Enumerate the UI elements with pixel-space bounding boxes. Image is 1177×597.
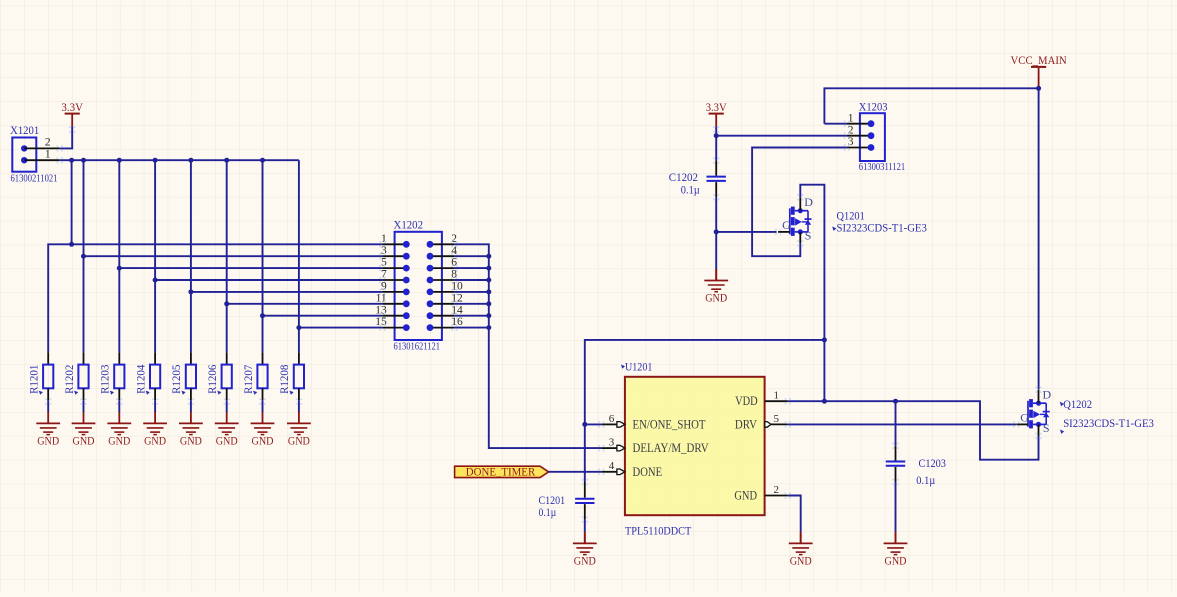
junction [486, 313, 491, 318]
label Q1202 [1060, 397, 1092, 411]
wire R1205 to ground [188, 398, 194, 412]
svg-text:1: 1 [848, 112, 854, 124]
ground GND under R1201 [36, 412, 60, 448]
resistor R1202 [78, 352, 88, 400]
junction [822, 337, 827, 342]
svg-text:R1201: R1201 [29, 364, 41, 394]
svg-text:X1202: X1202 [394, 218, 424, 232]
wire R1202 to ground [80, 398, 86, 412]
junction [486, 289, 491, 294]
label R1208 [279, 364, 293, 394]
wire R1201 to ground [45, 398, 51, 412]
wire Q1201 drain to EN net [800, 185, 824, 340]
svg-text:X1201: X1201 [10, 123, 39, 137]
svg-text:6: 6 [451, 257, 457, 269]
svg-text:GND: GND [108, 435, 130, 448]
junction [224, 158, 229, 307]
svg-text:13: 13 [375, 304, 387, 316]
junction [486, 301, 491, 306]
power VCC_MAIN [1011, 53, 1067, 86]
svg-text:D: D [1043, 388, 1052, 402]
junction [81, 158, 86, 259]
svg-text:Q1201: Q1201 [837, 209, 865, 223]
svg-text:GND: GND [180, 435, 202, 448]
svg-text:GND: GND [790, 555, 812, 568]
svg-text:SI2323CDS-T1-GE3: SI2323CDS-T1-GE3 [1063, 418, 1154, 430]
svg-text:U1201: U1201 [625, 360, 652, 374]
wire C1202 to ground and Q1201 gate [716, 197, 776, 269]
wire drop to R1208 [298, 160, 300, 352]
svg-text:15: 15 [375, 316, 387, 328]
svg-text:11: 11 [376, 292, 387, 304]
svg-text:10: 10 [451, 281, 463, 293]
svg-text:GND: GND [288, 435, 310, 448]
wire R1203 to ground [116, 398, 122, 412]
junction [714, 229, 719, 234]
label U1201 [621, 360, 652, 374]
power 3.3V (left) [61, 100, 83, 127]
wire X1202 pin16 to bus [454, 327, 488, 329]
wire DRV to Q1202 gate [788, 423, 1016, 425]
svg-text:3.3V: 3.3V [61, 100, 83, 114]
svg-text:5: 5 [774, 413, 780, 425]
svg-text:TPL5110DDCT: TPL5110DDCT [625, 523, 692, 537]
label X1203 [859, 99, 888, 113]
svg-text:GND: GND [574, 555, 596, 568]
wire row13 to X1202 pin13 [263, 315, 383, 317]
label R1205 [171, 364, 185, 394]
label 61300311121 [859, 161, 905, 173]
svg-text:7: 7 [381, 269, 387, 281]
wire drop column x=83.5 [83, 160, 85, 352]
wire row7 to X1202 pin7 [155, 279, 382, 281]
resistor R1206 [222, 352, 232, 400]
label C1202 value 0.1u [681, 182, 700, 196]
wire drop column x=190.9 [190, 160, 192, 352]
capacitor C1203 [886, 401, 905, 532]
wire X1202 pin14 to bus [454, 315, 488, 317]
junction [260, 158, 265, 319]
svg-text:R1203: R1203 [100, 364, 112, 394]
wire X1202 pin10 to bus [454, 291, 488, 293]
label R1204 [135, 364, 149, 394]
wire row1 to X1202 pin1 and R1201 [48, 244, 382, 352]
label C1201 value 0.1u [539, 505, 557, 519]
svg-text:6: 6 [609, 413, 615, 425]
connector X1203 [844, 112, 885, 161]
junction [486, 325, 491, 330]
wire EN to U1201 pin6 [585, 423, 602, 425]
wire Q1201 source to X1203 pin3 [752, 148, 847, 257]
svg-text:1: 1 [381, 233, 387, 245]
ground GND under R1207 [251, 412, 275, 448]
junction [486, 266, 491, 271]
label R1207 [243, 364, 257, 394]
resistor R1204 [150, 352, 160, 400]
svg-text:0.1µ: 0.1µ [681, 182, 700, 196]
svg-text:Q1202: Q1202 [1063, 397, 1092, 411]
svg-text:SI2323CDS-T1-GE3: SI2323CDS-T1-GE3 [837, 222, 928, 234]
wire VCC vertical to VDD junction [823, 340, 825, 401]
wire X1202 pin4 to bus [454, 255, 488, 257]
label Q1202 part SI2323CDS-T1-GE3 [1060, 418, 1154, 434]
svg-text:GND: GND [216, 435, 238, 448]
label C1203 [919, 456, 946, 470]
wire R1204 to ground [152, 398, 158, 412]
wire drop column x=155.1 [154, 160, 156, 352]
ground GND under U1201 pin2 [789, 532, 813, 568]
net label DONE_TIMER [455, 464, 549, 478]
svg-text:GND: GND [885, 555, 907, 568]
svg-text:R1204: R1204 [135, 364, 147, 394]
wire drop column x=226.7 [226, 160, 228, 352]
wire U1201 GND pin2 to ground [788, 496, 801, 532]
svg-text:R1202: R1202 [64, 364, 76, 394]
wire X1202 pin8 to bus [454, 279, 488, 281]
junction [822, 399, 898, 404]
transistor Q1202 [1013, 387, 1051, 439]
junction [117, 158, 122, 271]
svg-text:R1205: R1205 [171, 364, 183, 394]
wire 3.3V to X1201 pin 2 [60, 126, 76, 148]
ground GND under R1206 [215, 412, 239, 448]
svg-text:3: 3 [848, 136, 854, 148]
ground GND under R1208 [287, 412, 311, 448]
wire X1202 right bus to U1201 DELAY pin [454, 244, 601, 448]
junction [486, 278, 491, 283]
svg-text:DONE_TIMER: DONE_TIMER [466, 464, 535, 478]
label X1202 [394, 218, 424, 232]
label C1203 value 0.1u [916, 473, 935, 487]
svg-text:VCC_MAIN: VCC_MAIN [1011, 53, 1067, 67]
svg-text:0.1µ: 0.1µ [916, 473, 935, 487]
wire row3 to X1202 pin3 [84, 255, 383, 257]
svg-text:GND: GND [734, 488, 757, 503]
svg-text:4: 4 [451, 245, 457, 257]
ground GND under C1201 [573, 532, 597, 568]
wire row5 to X1202 pin5 [119, 267, 382, 269]
svg-text:2: 2 [774, 484, 780, 496]
resistor R1201 [43, 352, 53, 400]
IC U1201 TPL5110DDCT [598, 377, 791, 515]
label R1201 [29, 364, 43, 394]
svg-text:R1206: R1206 [207, 364, 219, 394]
wire X1202 pin12 to bus [454, 303, 488, 305]
svg-text:DRV: DRV [735, 416, 758, 431]
svg-text:8: 8 [451, 269, 457, 281]
junction [188, 158, 193, 295]
svg-text:3: 3 [381, 245, 387, 257]
wire row15 to X1202 pin15 [299, 327, 383, 329]
label R1206 [207, 364, 221, 394]
svg-text:2: 2 [451, 233, 457, 245]
label Q1201 [837, 209, 865, 223]
transistor Q1201 [775, 194, 813, 246]
junction [69, 158, 74, 247]
svg-text:R1207: R1207 [243, 364, 255, 394]
connector X1202 [375, 232, 463, 340]
resistor R1208 [294, 352, 304, 400]
svg-text:5: 5 [381, 257, 387, 269]
connector X1201 [12, 137, 63, 172]
svg-text:14: 14 [451, 304, 463, 316]
wire drop to row1 [71, 160, 73, 244]
label Q1201 part SI2323CDS-T1-GE3 [832, 222, 927, 234]
svg-text:2: 2 [45, 137, 51, 149]
svg-text:1: 1 [45, 149, 51, 161]
label 61300211021 [11, 172, 58, 184]
svg-text:GND: GND [705, 292, 727, 305]
wire VCC_MAIN net [824, 86, 1038, 389]
svg-text:DONE: DONE [633, 464, 663, 479]
ground GND under C1203 [884, 532, 908, 568]
svg-text:C1203: C1203 [919, 456, 946, 470]
ground GND under R1202 [72, 412, 96, 448]
wire R1206 to ground [224, 398, 230, 412]
svg-text:9: 9 [381, 281, 387, 293]
svg-text:2: 2 [848, 124, 854, 136]
svg-text:3.3V: 3.3V [706, 100, 727, 114]
junction [582, 422, 587, 427]
svg-text:G: G [1020, 411, 1029, 425]
wire drop column x=262.5 [262, 160, 264, 352]
junction [486, 254, 491, 259]
wire X1202 pin6 to bus [454, 267, 488, 269]
svg-text:GND: GND [37, 435, 59, 448]
wire drop column x=119.3 [118, 160, 120, 352]
label C1201 [539, 493, 566, 507]
ground GND under C1202 [704, 269, 728, 305]
label TPL5110DDCT [625, 523, 692, 537]
wire row11 to X1202 pin11 [227, 303, 383, 305]
svg-text:61301621121: 61301621121 [394, 340, 441, 352]
svg-text:16: 16 [451, 316, 463, 328]
svg-text:0.1µ: 0.1µ [539, 505, 557, 519]
svg-text:12: 12 [451, 292, 463, 304]
capacitor C1201 [575, 424, 594, 532]
label R1203 [100, 364, 114, 394]
wire DONE_TIMER to U1201 pin4 [549, 471, 602, 473]
svg-text:3: 3 [609, 437, 615, 449]
junction [296, 325, 301, 330]
svg-text:S: S [805, 229, 812, 243]
wire EN net horizontal [585, 340, 825, 425]
resistor R1203 [114, 352, 124, 400]
label 61301621121 [394, 340, 441, 352]
svg-text:61300311121: 61300311121 [859, 161, 905, 173]
svg-text:S: S [1043, 421, 1050, 435]
power 3.3V (right) [706, 100, 727, 127]
svg-text:GND: GND [73, 435, 95, 448]
wire 3.3V to X1203 pin2 and C1202 [713, 126, 847, 160]
label C1202 [669, 170, 698, 184]
wire R1208 to ground [296, 398, 302, 412]
svg-text:VDD: VDD [735, 393, 758, 408]
svg-text:G: G [782, 218, 791, 232]
ground GND under R1204 [143, 412, 167, 448]
wire bus X1201 pin1 [60, 159, 299, 161]
svg-text:EN/ONE_SHOT: EN/ONE_SHOT [633, 416, 706, 431]
svg-text:1: 1 [774, 390, 780, 402]
resistor R1207 [257, 352, 267, 400]
svg-text:R1208: R1208 [279, 364, 291, 394]
label X1201 [10, 123, 39, 137]
ground GND under R1203 [107, 412, 131, 448]
wire row9 to X1202 pin9 [191, 291, 383, 293]
junction [1036, 86, 1041, 91]
resistor R1205 [186, 352, 196, 400]
svg-text:4: 4 [609, 460, 615, 472]
svg-text:GND: GND [252, 435, 274, 448]
label R1202 [64, 364, 78, 394]
svg-text:D: D [804, 195, 813, 209]
svg-text:GND: GND [144, 435, 166, 448]
capacitor C1202 [707, 157, 726, 200]
svg-text:DELAY/M_DRV: DELAY/M_DRV [633, 440, 710, 455]
junction [153, 158, 158, 283]
junction [714, 133, 719, 138]
ground GND under R1205 [179, 412, 203, 448]
wire VDD net [788, 401, 1039, 460]
svg-text:61300211021: 61300211021 [11, 172, 58, 184]
wire R1207 to ground [259, 398, 265, 412]
svg-text:X1203: X1203 [859, 99, 888, 113]
